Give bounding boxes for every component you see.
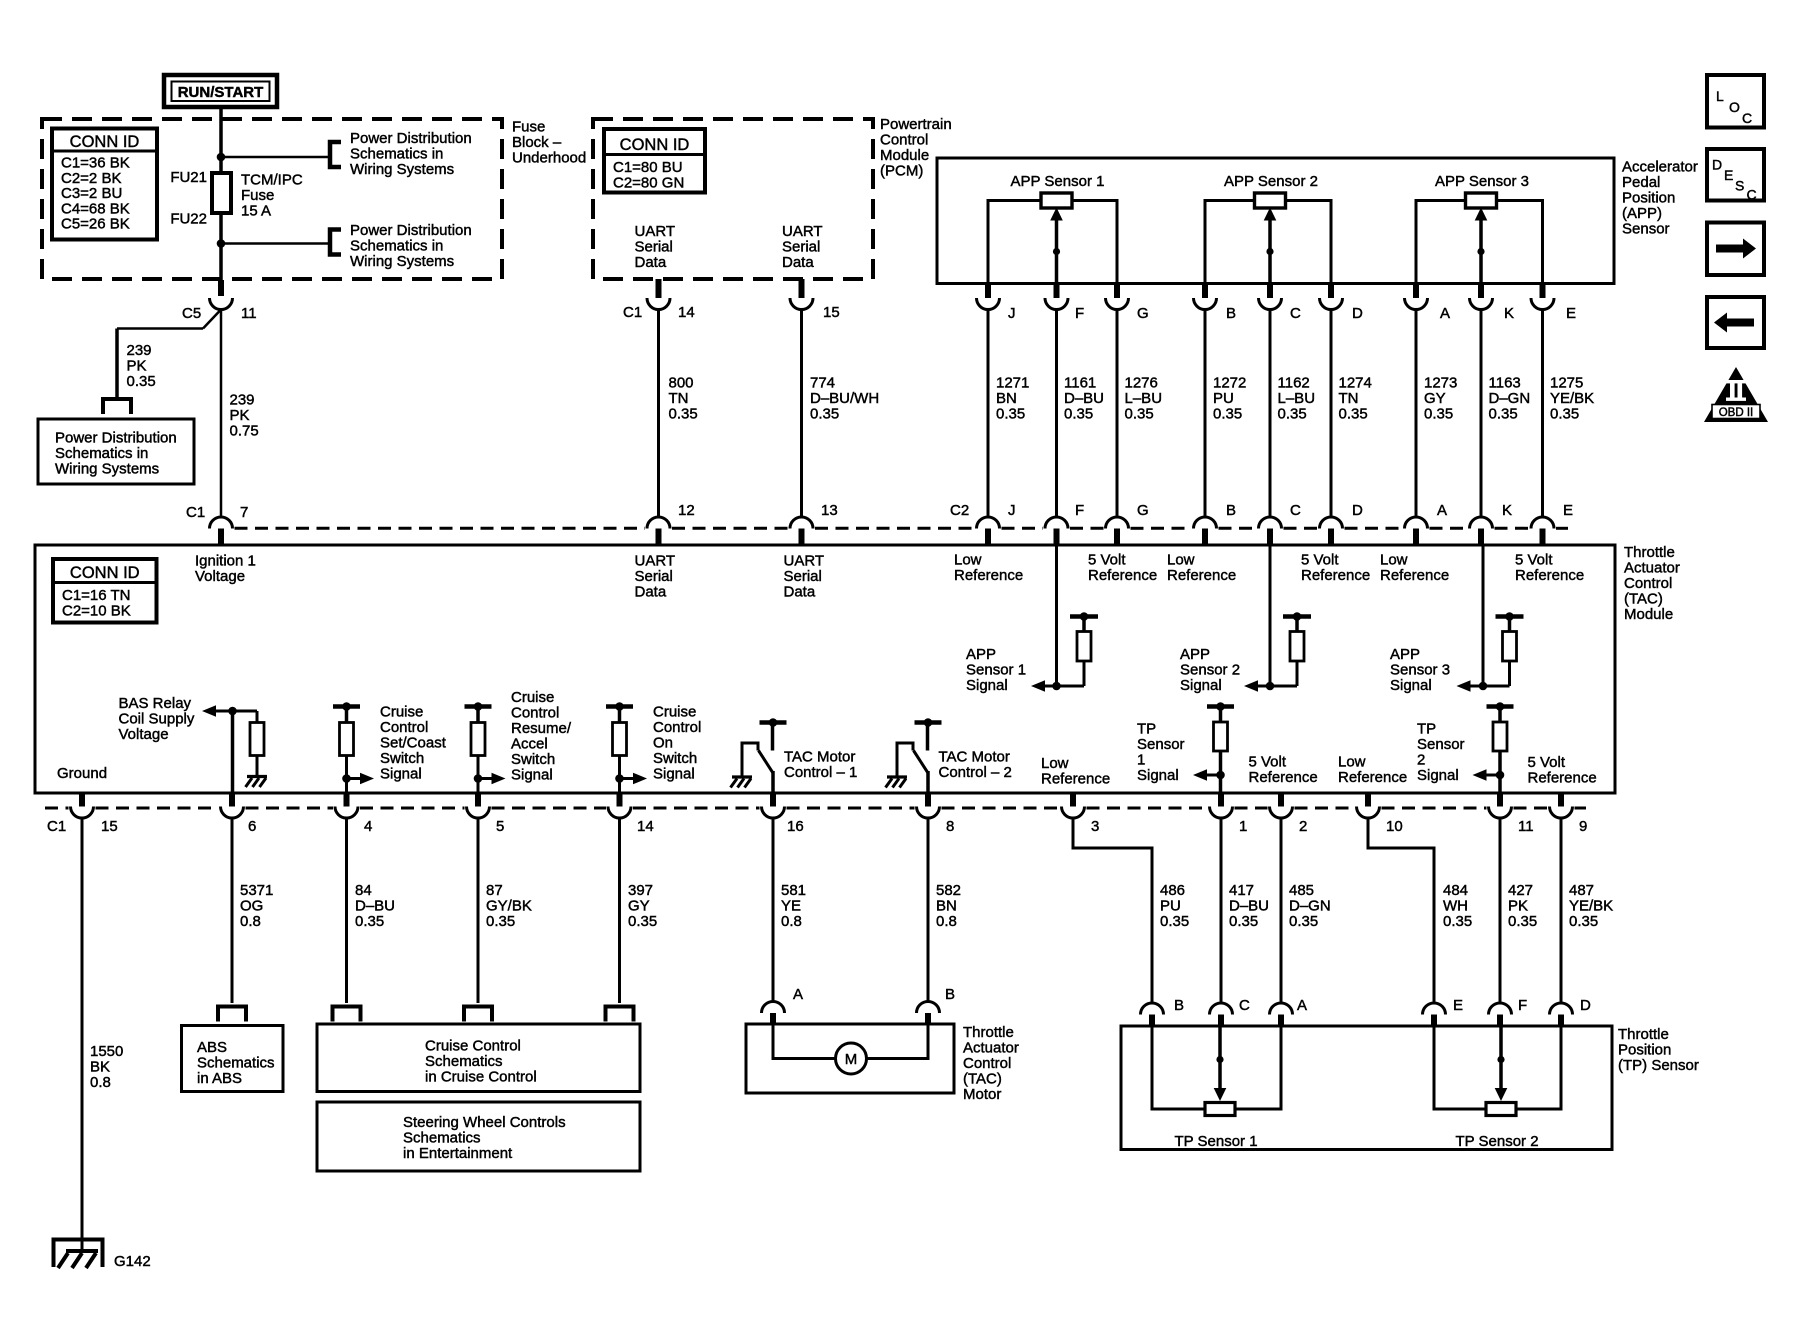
svg-text:D–BU: D–BU [1064, 390, 1104, 407]
svg-text:Serial: Serial [635, 239, 673, 256]
svg-text:E: E [1453, 997, 1463, 1014]
svg-text:581: 581 [781, 882, 806, 899]
svg-text:FU22: FU22 [170, 211, 207, 228]
svg-text:OG: OG [240, 898, 263, 915]
svg-text:C: C [1742, 110, 1752, 126]
svg-text:D: D [1580, 997, 1591, 1014]
svg-text:TP: TP [1417, 721, 1436, 738]
svg-text:C: C [1290, 305, 1301, 322]
svg-text:3: 3 [1091, 818, 1099, 835]
svg-text:C5=26 BK: C5=26 BK [61, 216, 130, 233]
svg-text:YE: YE [781, 898, 801, 915]
svg-text:CONN ID: CONN ID [70, 564, 140, 582]
svg-text:D–BU: D–BU [1229, 898, 1269, 915]
svg-text:Accelerator: Accelerator [1622, 159, 1698, 176]
svg-text:D–GN: D–GN [1489, 390, 1531, 407]
svg-text:Signal: Signal [511, 767, 553, 784]
svg-text:0.8: 0.8 [781, 913, 802, 930]
svg-text:Sensor 1: Sensor 1 [966, 662, 1026, 679]
svg-text:C: C [1239, 997, 1250, 1014]
svg-text:PK: PK [1508, 898, 1528, 915]
svg-text:Schematics in: Schematics in [55, 445, 148, 462]
svg-text:5: 5 [496, 818, 504, 835]
svg-text:in Entertainment: in Entertainment [403, 1145, 513, 1162]
svg-text:TN: TN [669, 390, 689, 407]
svg-text:Voltage: Voltage [195, 568, 245, 585]
svg-text:Power Distribution: Power Distribution [350, 222, 472, 239]
svg-text:0.35: 0.35 [669, 406, 698, 423]
svg-text:1163: 1163 [1489, 375, 1521, 392]
svg-text:11: 11 [1518, 818, 1534, 835]
svg-text:D–BU: D–BU [355, 898, 395, 915]
svg-text:5 Volt: 5 Volt [1088, 552, 1126, 569]
svg-text:15: 15 [101, 818, 118, 835]
svg-text:On: On [653, 735, 673, 752]
svg-text:E: E [1566, 305, 1576, 322]
svg-text:E: E [1724, 167, 1733, 183]
svg-text:Control: Control [1624, 575, 1672, 592]
svg-text:APP Sensor 1: APP Sensor 1 [1011, 173, 1105, 190]
svg-text:Signal: Signal [380, 766, 422, 783]
svg-text:1: 1 [1239, 818, 1247, 835]
svg-text:Reference: Reference [1041, 771, 1110, 788]
svg-text:Low: Low [1338, 754, 1366, 771]
svg-text:Reference: Reference [1167, 567, 1236, 584]
svg-text:Fuse: Fuse [512, 119, 545, 136]
svg-text:(TP) Sensor: (TP) Sensor [1618, 1057, 1699, 1074]
svg-text:F: F [1075, 305, 1084, 322]
svg-text:2: 2 [1299, 818, 1307, 835]
svg-text:5 Volt: 5 Volt [1515, 552, 1553, 569]
svg-text:Low: Low [954, 552, 982, 569]
svg-text:Sensor: Sensor [1137, 736, 1185, 753]
svg-text:7: 7 [240, 504, 248, 521]
svg-text:Control: Control [653, 719, 701, 736]
svg-text:APP: APP [1180, 646, 1210, 663]
svg-text:Data: Data [784, 584, 816, 601]
svg-text:F: F [1075, 502, 1084, 519]
svg-text:Sensor: Sensor [1417, 736, 1465, 753]
svg-text:0.35: 0.35 [486, 913, 515, 930]
svg-text:Switch: Switch [653, 750, 697, 767]
svg-text:GY: GY [1424, 390, 1446, 407]
svg-text:Resume/: Resume/ [511, 720, 572, 737]
svg-text:G: G [1137, 502, 1149, 519]
svg-text:CONN ID: CONN ID [620, 136, 690, 154]
svg-text:2: 2 [1417, 752, 1425, 769]
svg-text:A: A [1440, 305, 1450, 322]
svg-text:Fuse: Fuse [241, 187, 274, 204]
svg-text:PK: PK [127, 358, 147, 375]
svg-text:Schematics in: Schematics in [350, 146, 443, 163]
svg-text:Cruise: Cruise [380, 704, 423, 721]
svg-text:1161: 1161 [1064, 375, 1096, 392]
svg-text:GY/BK: GY/BK [486, 898, 532, 915]
svg-text:CONN ID: CONN ID [70, 133, 140, 151]
svg-text:239: 239 [230, 392, 255, 409]
svg-text:D: D [1352, 305, 1363, 322]
svg-text:APP: APP [966, 646, 996, 663]
svg-text:Reference: Reference [1088, 567, 1157, 584]
svg-text:F: F [1518, 997, 1527, 1014]
svg-text:BN: BN [936, 898, 957, 915]
svg-text:Cruise: Cruise [511, 689, 554, 706]
svg-text:B: B [945, 986, 955, 1003]
svg-text:0.35: 0.35 [1443, 913, 1472, 930]
svg-text:13: 13 [821, 502, 838, 519]
svg-text:Sensor 2: Sensor 2 [1180, 662, 1240, 679]
svg-text:GY: GY [628, 898, 650, 915]
svg-text:84: 84 [355, 882, 372, 899]
svg-text:in ABS: in ABS [197, 1070, 242, 1087]
svg-text:APP Sensor 2: APP Sensor 2 [1224, 173, 1318, 190]
svg-text:5371: 5371 [240, 882, 273, 899]
svg-text:10: 10 [1386, 818, 1403, 835]
svg-text:Serial: Serial [784, 568, 822, 585]
svg-text:Signal: Signal [966, 677, 1008, 694]
svg-text:Set/Coast: Set/Coast [380, 735, 447, 752]
svg-text:15: 15 [823, 304, 840, 321]
svg-text:(APP): (APP) [1622, 205, 1662, 222]
svg-text:582: 582 [936, 882, 961, 899]
svg-text:Throttle: Throttle [1624, 544, 1675, 561]
svg-text:D–BU/WH: D–BU/WH [810, 390, 879, 407]
svg-text:D–GN: D–GN [1289, 898, 1331, 915]
svg-text:6: 6 [248, 818, 256, 835]
svg-text:0.35: 0.35 [1339, 406, 1368, 423]
svg-text:O: O [1729, 99, 1740, 115]
svg-text:0.35: 0.35 [1229, 913, 1258, 930]
svg-text:Ground: Ground [57, 765, 107, 782]
svg-text:PK: PK [230, 407, 250, 424]
svg-text:BN: BN [996, 390, 1017, 407]
svg-text:TP Sensor 1: TP Sensor 1 [1174, 1133, 1257, 1150]
svg-text:15 A: 15 A [241, 203, 271, 220]
svg-text:1162: 1162 [1278, 375, 1310, 392]
svg-text:Control: Control [380, 719, 428, 736]
svg-text:Switch: Switch [380, 750, 424, 767]
svg-text:0.35: 0.35 [1125, 406, 1154, 423]
svg-text:TCM/IPC: TCM/IPC [241, 172, 303, 189]
svg-text:UART: UART [782, 223, 823, 240]
svg-text:1275: 1275 [1550, 375, 1583, 392]
svg-text:87: 87 [486, 882, 503, 899]
svg-text:in Cruise Control: in Cruise Control [425, 1069, 537, 1086]
svg-text:C2: C2 [950, 502, 969, 519]
svg-text:0.35: 0.35 [1424, 406, 1453, 423]
svg-text:0.8: 0.8 [936, 913, 957, 930]
svg-text:486: 486 [1160, 882, 1185, 899]
svg-text:Low: Low [1380, 552, 1408, 569]
svg-text:Cruise Control: Cruise Control [425, 1038, 521, 1055]
svg-text:Schematics: Schematics [403, 1130, 481, 1147]
svg-text:Motor: Motor [963, 1086, 1001, 1103]
svg-text:G: G [1137, 305, 1149, 322]
svg-text:Control: Control [963, 1055, 1011, 1072]
svg-text:RUN/START: RUN/START [178, 84, 264, 101]
svg-text:WH: WH [1443, 898, 1468, 915]
svg-text:Sensor: Sensor [1622, 221, 1670, 238]
svg-text:TAC Motor: TAC Motor [939, 749, 1010, 766]
svg-text:PU: PU [1213, 390, 1234, 407]
svg-text:484: 484 [1443, 882, 1468, 899]
svg-text:S: S [1735, 178, 1744, 194]
svg-text:(TAC): (TAC) [1624, 591, 1663, 608]
svg-text:Position: Position [1618, 1042, 1671, 1059]
svg-text:C5: C5 [182, 305, 201, 322]
svg-text:Power Distribution: Power Distribution [55, 430, 177, 447]
svg-text:0.35: 0.35 [355, 913, 384, 930]
svg-text:800: 800 [669, 375, 694, 392]
svg-text:C2=10 BK: C2=10 BK [62, 602, 131, 619]
svg-text:PU: PU [1160, 898, 1181, 915]
svg-text:Coil Supply: Coil Supply [119, 711, 195, 728]
svg-text:0.35: 0.35 [628, 913, 657, 930]
svg-text:C1: C1 [186, 504, 205, 521]
svg-text:Reference: Reference [1338, 769, 1407, 786]
svg-text:0.35: 0.35 [1569, 913, 1598, 930]
svg-text:APP: APP [1390, 646, 1420, 663]
svg-text:Module: Module [1624, 606, 1673, 623]
svg-text:B: B [1226, 502, 1236, 519]
svg-text:TAC Motor: TAC Motor [784, 749, 855, 766]
svg-text:1550: 1550 [90, 1043, 123, 1060]
svg-text:427: 427 [1508, 882, 1533, 899]
svg-text:BAS Relay: BAS Relay [119, 695, 192, 712]
svg-text:J: J [1008, 305, 1016, 322]
svg-text:1272: 1272 [1213, 375, 1246, 392]
svg-text:Throttle: Throttle [963, 1024, 1014, 1041]
svg-text:K: K [1504, 305, 1514, 322]
svg-text:FU21: FU21 [170, 169, 207, 186]
svg-text:1276: 1276 [1125, 375, 1158, 392]
svg-text:Wiring Systems: Wiring Systems [55, 461, 159, 478]
svg-text:0.35: 0.35 [810, 406, 839, 423]
svg-text:487: 487 [1569, 882, 1594, 899]
svg-text:Wiring Systems: Wiring Systems [350, 161, 454, 178]
svg-text:14: 14 [637, 818, 654, 835]
svg-text:C: C [1747, 187, 1757, 203]
svg-text:Low: Low [1167, 552, 1195, 569]
svg-text:Position: Position [1622, 190, 1675, 207]
svg-text:Module: Module [880, 147, 929, 164]
svg-text:Actuator: Actuator [1624, 560, 1680, 577]
svg-text:397: 397 [628, 882, 653, 899]
svg-text:Reference: Reference [1528, 770, 1597, 787]
svg-text:5 Volt: 5 Volt [1301, 552, 1339, 569]
svg-text:1271: 1271 [996, 375, 1029, 392]
svg-text:Signal: Signal [1417, 767, 1459, 784]
svg-text:0.8: 0.8 [90, 1074, 111, 1091]
svg-text:J: J [1008, 502, 1016, 519]
svg-text:UART: UART [635, 553, 676, 570]
svg-text:E: E [1563, 502, 1573, 519]
svg-text:1: 1 [1137, 752, 1145, 769]
svg-text:4: 4 [364, 818, 372, 835]
svg-text:OBD II: OBD II [1719, 407, 1754, 419]
svg-text:TP: TP [1137, 721, 1156, 738]
svg-text:Low: Low [1041, 755, 1069, 772]
svg-text:L–BU: L–BU [1278, 390, 1316, 407]
svg-text:Pedal: Pedal [1622, 174, 1660, 191]
svg-text:0.35: 0.35 [1213, 406, 1242, 423]
svg-text:Signal: Signal [1390, 677, 1432, 694]
svg-text:0.35: 0.35 [1489, 406, 1518, 423]
svg-text:Reference: Reference [1301, 567, 1370, 584]
svg-text:L: L [1716, 88, 1724, 104]
svg-text:8: 8 [946, 818, 954, 835]
svg-text:0.35: 0.35 [996, 406, 1025, 423]
svg-text:Reference: Reference [1515, 567, 1584, 584]
svg-text:Reference: Reference [1249, 769, 1318, 786]
svg-text:11: 11 [241, 305, 257, 322]
svg-text:1273: 1273 [1424, 375, 1457, 392]
svg-text:0.35: 0.35 [1064, 406, 1093, 423]
svg-text:Accel: Accel [511, 736, 548, 753]
svg-text:B: B [1174, 997, 1184, 1014]
svg-text:Throttle: Throttle [1618, 1026, 1669, 1043]
svg-text:Schematics in: Schematics in [350, 238, 443, 255]
svg-text:Control: Control [511, 705, 559, 722]
svg-text:5 Volt: 5 Volt [1249, 754, 1287, 771]
svg-text:Control – 1: Control – 1 [784, 764, 857, 781]
svg-text:ABS: ABS [197, 1039, 227, 1056]
svg-text:Actuator: Actuator [963, 1040, 1019, 1057]
svg-text:774: 774 [810, 375, 835, 392]
svg-text:Schematics: Schematics [425, 1053, 503, 1070]
svg-text:0.35: 0.35 [1550, 406, 1579, 423]
svg-text:Control – 2: Control – 2 [939, 764, 1012, 781]
svg-text:(PCM): (PCM) [880, 163, 923, 180]
svg-text:Schematics: Schematics [197, 1055, 275, 1072]
svg-text:9: 9 [1579, 818, 1587, 835]
svg-text:485: 485 [1289, 882, 1314, 899]
svg-text:14: 14 [678, 304, 695, 321]
svg-text:D: D [1352, 502, 1363, 519]
svg-text:B: B [1226, 305, 1236, 322]
svg-text:5 Volt: 5 Volt [1528, 754, 1566, 771]
svg-text:BK: BK [90, 1059, 110, 1076]
svg-text:C1: C1 [623, 304, 642, 321]
svg-text:C: C [1290, 502, 1301, 519]
svg-text:0.35: 0.35 [1289, 913, 1318, 930]
svg-text:239: 239 [127, 342, 152, 359]
svg-text:Data: Data [635, 254, 667, 271]
svg-text:1274: 1274 [1339, 375, 1372, 392]
svg-text:Signal: Signal [1180, 677, 1222, 694]
svg-text:Signal: Signal [1137, 767, 1179, 784]
svg-text:0.8: 0.8 [240, 913, 261, 930]
svg-text:A: A [1297, 997, 1307, 1014]
svg-text:Underhood: Underhood [512, 150, 586, 167]
svg-text:UART: UART [635, 223, 676, 240]
svg-text:Data: Data [782, 254, 814, 271]
svg-text:Signal: Signal [653, 766, 695, 783]
svg-text:Block –: Block – [512, 134, 562, 151]
svg-text:Reference: Reference [1380, 567, 1449, 584]
svg-text:12: 12 [678, 502, 695, 519]
svg-text:Switch: Switch [511, 751, 555, 768]
svg-text:(TAC): (TAC) [963, 1071, 1002, 1088]
svg-text:Cruise: Cruise [653, 704, 696, 721]
svg-text:APP Sensor 3: APP Sensor 3 [1435, 173, 1529, 190]
svg-text:Data: Data [635, 584, 667, 601]
svg-text:417: 417 [1229, 882, 1254, 899]
svg-text:YE/BK: YE/BK [1550, 390, 1594, 407]
svg-text:K: K [1502, 502, 1512, 519]
svg-text:D: D [1712, 157, 1722, 173]
svg-text:YE/BK: YE/BK [1569, 898, 1613, 915]
svg-text:0.75: 0.75 [230, 423, 259, 440]
svg-text:Powertrain: Powertrain [880, 116, 952, 133]
svg-text:TP Sensor 2: TP Sensor 2 [1455, 1133, 1538, 1150]
svg-text:0.35: 0.35 [1278, 406, 1307, 423]
svg-text:16: 16 [787, 818, 804, 835]
svg-text:C1: C1 [47, 818, 66, 835]
svg-text:Sensor 3: Sensor 3 [1390, 662, 1450, 679]
svg-text:UART: UART [784, 553, 825, 570]
svg-text:C2=80 GN: C2=80 GN [613, 174, 684, 191]
svg-text:A: A [793, 986, 803, 1003]
svg-text:Serial: Serial [782, 239, 820, 256]
svg-text:0.35: 0.35 [1160, 913, 1189, 930]
svg-text:A: A [1437, 502, 1447, 519]
svg-text:Serial: Serial [635, 568, 673, 585]
svg-text:Voltage: Voltage [119, 726, 169, 743]
svg-text:L–BU: L–BU [1125, 390, 1163, 407]
svg-text:0.35: 0.35 [1508, 913, 1537, 930]
svg-text:Control: Control [880, 132, 928, 149]
svg-text:TN: TN [1339, 390, 1359, 407]
svg-text:Ignition 1: Ignition 1 [195, 553, 256, 570]
svg-text:Power Distribution: Power Distribution [350, 130, 472, 147]
svg-text:0.35: 0.35 [127, 373, 156, 390]
svg-text:Wiring Systems: Wiring Systems [350, 253, 454, 270]
svg-text:M: M [845, 1051, 858, 1068]
svg-text:G142: G142 [114, 1253, 151, 1270]
svg-text:Reference: Reference [954, 567, 1023, 584]
svg-text:Steering Wheel Controls: Steering Wheel Controls [403, 1114, 566, 1131]
